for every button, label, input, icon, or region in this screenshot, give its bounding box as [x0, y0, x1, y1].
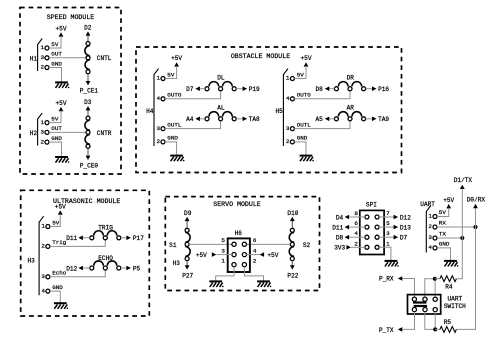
svg-text:P_TX: P_TX: [379, 327, 394, 334]
wire SPI pin1 to ground: [379, 247, 391, 260]
svg-text:SERVO MODULE: SERVO MODULE: [213, 201, 261, 208]
node P_TX: [379, 327, 402, 334]
svg-text:6: 6: [253, 237, 257, 244]
svg-text:D2: D2: [84, 25, 92, 32]
svg-text:D11: D11: [332, 225, 343, 232]
svg-text:S1: S1: [169, 242, 177, 249]
wire pin3 to node: [49, 57, 86, 59]
svg-text:P16: P16: [378, 86, 389, 93]
power +5V: [49, 25, 67, 48]
power +5V: [294, 55, 311, 78]
svg-text:H1: H1: [30, 56, 38, 63]
jumper bridge AR: [334, 105, 365, 121]
svg-text:H6: H6: [235, 230, 243, 237]
node P22: [287, 261, 298, 280]
svg-text:4: 4: [41, 287, 45, 294]
svg-text:DL: DL: [217, 75, 225, 82]
junction: [474, 225, 478, 229]
node D7: [186, 86, 205, 93]
ground: [257, 281, 271, 287]
resistor R4: [435, 276, 457, 291]
svg-text:4: 4: [428, 244, 432, 251]
power +5V: [49, 100, 67, 123]
svg-text:AL: AL: [217, 105, 225, 112]
svg-text:5V: 5V: [51, 41, 59, 48]
node D4: [336, 214, 365, 221]
ground: [170, 156, 184, 162]
svg-text:P19: P19: [249, 86, 260, 93]
svg-text:R5: R5: [444, 319, 452, 326]
svg-text:OUTO: OUTO: [297, 92, 312, 99]
svg-text:+5V: +5V: [443, 197, 454, 204]
svg-text:P5: P5: [133, 265, 141, 272]
svg-text:2: 2: [156, 138, 160, 145]
node A5: [315, 116, 334, 123]
svg-text:DR: DR: [347, 75, 355, 82]
ground: [55, 157, 69, 163]
node D12: [66, 265, 90, 272]
svg-text:D13: D13: [400, 225, 411, 232]
svg-text:UART: UART: [448, 296, 463, 303]
ground: [444, 261, 458, 267]
node D13: [379, 225, 411, 232]
svg-text:D7: D7: [400, 235, 408, 242]
wire switch top-middle to junction: [425, 279, 435, 297]
module box ULTRASONIC MODULE: [21, 190, 150, 316]
svg-text:1: 1: [40, 119, 44, 126]
svg-text:+5V: +5V: [55, 203, 66, 210]
net D1/TX: [454, 177, 473, 189]
ground: [385, 261, 399, 267]
svg-text:3: 3: [286, 125, 290, 132]
node D8: [315, 86, 334, 93]
svg-text:3: 3: [40, 129, 44, 136]
svg-text:Trig: Trig: [52, 239, 67, 246]
ground: [300, 156, 314, 162]
wire TX to D1/TX: [437, 237, 462, 239]
svg-text:2: 2: [41, 243, 45, 250]
ground: [55, 82, 69, 88]
connector H1: [30, 39, 63, 72]
node D11: [66, 235, 90, 242]
power +5V into pin 3: [196, 252, 232, 259]
svg-text:6: 6: [354, 220, 358, 227]
node D12: [379, 214, 411, 221]
node P_RX: [379, 276, 402, 283]
junction: [433, 277, 437, 281]
svg-text:P_CE0: P_CE0: [80, 162, 99, 169]
svg-text:GND: GND: [439, 241, 450, 248]
svg-text:5V: 5V: [297, 71, 305, 78]
svg-text:OUT: OUT: [51, 51, 62, 58]
power +5V into pin 4: [247, 252, 279, 259]
jumper bridge TRIG: [90, 225, 121, 240]
svg-text:RX: RX: [439, 220, 447, 227]
svg-text:3: 3: [41, 273, 45, 280]
svg-text:P_CE1: P_CE1: [80, 88, 99, 95]
svg-text:GND: GND: [51, 135, 62, 142]
node P_CE1: [80, 74, 99, 95]
svg-text:SPEED MODULE: SPEED MODULE: [47, 14, 95, 21]
svg-text:3V3: 3V3: [334, 245, 345, 252]
junction: [433, 327, 437, 331]
wire H6 pin6 to S2: [247, 243, 291, 245]
node P5: [121, 265, 141, 272]
svg-text:+5V: +5V: [301, 55, 312, 62]
svg-text:7: 7: [386, 210, 390, 217]
svg-text:SWITCH: SWITCH: [444, 303, 466, 310]
wire RX to D0/RX: [437, 226, 476, 228]
module box OBSTACLE MODULE: [136, 47, 402, 173]
junction: [460, 236, 464, 240]
svg-text:H3: H3: [27, 258, 35, 265]
jumper chain CNTR: [85, 116, 112, 148]
jumper bridge AL: [205, 105, 236, 121]
svg-text:3: 3: [40, 54, 44, 61]
svg-text:UART: UART: [420, 201, 435, 208]
svg-text:5V: 5V: [439, 209, 447, 216]
node D9: [184, 210, 192, 228]
wire ta8: [165, 121, 221, 129]
svg-text:CNTR: CNTR: [97, 130, 112, 137]
svg-text:5: 5: [386, 220, 390, 227]
wire echo: [50, 270, 105, 277]
svg-text:1: 1: [41, 223, 45, 230]
svg-text:3: 3: [386, 230, 390, 237]
resistor R5: [435, 319, 456, 332]
power +5V: [50, 203, 66, 226]
ground: [209, 281, 223, 287]
svg-text:4: 4: [286, 95, 290, 102]
svg-text:CNTL: CNTL: [97, 55, 112, 62]
wire pin2 to ground: [49, 68, 62, 82]
svg-text:+5V: +5V: [196, 252, 207, 259]
connector H5: [275, 69, 311, 146]
module box SPEED MODULE: [20, 8, 121, 175]
svg-text:P_RX: P_RX: [379, 276, 394, 283]
svg-text:GND: GND: [167, 135, 178, 142]
svg-text:D0/RX: D0/RX: [467, 196, 486, 203]
node P16: [366, 86, 390, 93]
svg-text:D8: D8: [336, 235, 344, 242]
wire pin3 to node: [49, 131, 86, 133]
wire P_TX to switch: [402, 312, 414, 330]
svg-text:D7: D7: [186, 86, 194, 93]
wire switch bottom-right to junction: [434, 312, 436, 330]
wire H6 pin2 to ground: [244, 267, 263, 281]
wire pin2 to ground: [165, 142, 177, 155]
wire H6 pin1 to ground: [216, 267, 234, 281]
wire pin2 to ground: [49, 142, 62, 156]
svg-text:1: 1: [221, 258, 225, 265]
svg-text:H4: H4: [146, 108, 154, 115]
svg-text:GND: GND: [52, 284, 63, 291]
svg-text:SPI: SPI: [366, 202, 377, 209]
svg-text:H3: H3: [173, 260, 181, 267]
connector UART: [420, 201, 450, 253]
svg-text:+5V: +5V: [56, 25, 67, 32]
svg-text:2: 2: [253, 258, 257, 265]
svg-text:R4: R4: [445, 284, 453, 291]
svg-text:Echo: Echo: [52, 270, 67, 277]
jumper chain S1: [169, 228, 190, 267]
svg-text:1: 1: [428, 213, 432, 220]
wire trig: [50, 240, 105, 247]
svg-text:5V: 5V: [52, 219, 60, 226]
jumper bridge DR: [334, 75, 365, 91]
svg-text:TA8: TA8: [249, 116, 260, 123]
wire p16: [294, 91, 350, 99]
svg-text:OUTL: OUTL: [297, 121, 312, 128]
node P_CE0: [80, 148, 99, 169]
connector H3: [27, 216, 66, 295]
svg-text:1: 1: [156, 75, 160, 82]
svg-text:OUTO: OUTO: [167, 92, 182, 99]
svg-text:D4: D4: [336, 214, 344, 221]
jumper bridge DL: [205, 75, 236, 91]
svg-text:4: 4: [354, 230, 358, 237]
svg-text:+5V: +5V: [267, 252, 278, 259]
wire pin4 to ground: [50, 291, 60, 302]
svg-text:OUT: OUT: [51, 125, 62, 132]
svg-text:D12: D12: [66, 265, 77, 272]
svg-text:A5: A5: [315, 116, 323, 123]
connector H2: [30, 113, 63, 146]
svg-text:P27: P27: [182, 273, 193, 280]
svg-text:H5: H5: [275, 108, 283, 115]
connector SPI: [354, 202, 390, 255]
ground: [54, 303, 68, 309]
power +5V: [437, 197, 455, 217]
svg-text:D9: D9: [184, 210, 192, 217]
svg-text:5: 5: [221, 237, 225, 244]
svg-text:4: 4: [253, 248, 257, 255]
svg-text:3: 3: [221, 248, 225, 255]
node D7: [379, 235, 407, 242]
svg-text:D12: D12: [400, 214, 411, 221]
wire switch top-right to junction: [434, 279, 436, 297]
jumper bridge ECHO: [90, 255, 121, 270]
node TA9: [366, 116, 390, 123]
svg-text:D3: D3: [84, 99, 92, 106]
connector H4: [146, 69, 182, 146]
svg-text:OUTL: OUTL: [167, 121, 182, 128]
svg-text:TA9: TA9: [378, 116, 389, 123]
svg-text:5V: 5V: [51, 115, 59, 122]
svg-text:+5V: +5V: [171, 55, 182, 62]
svg-text:GND: GND: [51, 60, 62, 67]
wire pin4 to ground: [437, 248, 451, 260]
svg-text:TRIG: TRIG: [98, 225, 113, 232]
wire P_RX to switch: [402, 279, 414, 297]
node P17: [121, 235, 144, 242]
node D8: [336, 235, 365, 242]
svg-text:D8: D8: [315, 86, 323, 93]
jumper chain CNTL: [85, 42, 112, 74]
jumper chain S2: [289, 228, 310, 260]
svg-text:2: 2: [40, 64, 44, 71]
wire switch bottom-middle to junction: [425, 312, 435, 330]
node D3: [84, 99, 92, 116]
connector UART SWITCH: [408, 295, 467, 314]
node P27: [182, 261, 193, 280]
svg-text:2: 2: [286, 138, 290, 145]
wire pin2 to ground: [294, 142, 306, 155]
svg-text:3: 3: [428, 234, 432, 241]
wire S1 to H6 pin5: [189, 243, 232, 245]
svg-text:4: 4: [156, 95, 160, 102]
node D10: [287, 210, 298, 228]
svg-text:ECHO: ECHO: [98, 255, 113, 262]
node D2: [84, 25, 92, 42]
svg-text:1: 1: [40, 44, 44, 51]
wire ta9: [294, 121, 350, 129]
node D11: [332, 225, 365, 232]
module box SERVO MODULE: [165, 197, 319, 291]
net D0/RX: [467, 196, 486, 208]
svg-text:D11: D11: [66, 235, 77, 242]
svg-text:+5V: +5V: [56, 100, 67, 107]
svg-text:OBSTACLE MODULE: OBSTACLE MODULE: [231, 53, 290, 60]
svg-text:2: 2: [354, 240, 358, 247]
wire p19: [165, 91, 221, 99]
svg-text:H2: H2: [30, 130, 38, 137]
svg-text:P17: P17: [133, 235, 144, 242]
node TA8: [236, 116, 260, 123]
node A4: [186, 116, 205, 123]
svg-text:8: 8: [354, 210, 358, 217]
svg-text:AR: AR: [347, 105, 355, 112]
svg-text:1: 1: [386, 240, 390, 247]
svg-text:TX: TX: [439, 231, 447, 238]
svg-text:A4: A4: [186, 116, 194, 123]
svg-text:2: 2: [428, 223, 432, 230]
power +5V: [165, 55, 182, 78]
svg-text:GND: GND: [297, 135, 308, 142]
node 3V3: [334, 245, 365, 252]
wire D1/TX vertical: [457, 189, 463, 279]
connector H6: [221, 230, 257, 272]
wire D0/RX vertical: [457, 208, 476, 329]
svg-text:D10: D10: [287, 210, 298, 217]
svg-text:D1/TX: D1/TX: [454, 177, 473, 184]
svg-text:3: 3: [156, 125, 160, 132]
svg-text:1: 1: [286, 75, 290, 82]
node P19: [236, 86, 260, 93]
svg-text:5V: 5V: [167, 71, 175, 78]
svg-text:2: 2: [40, 138, 44, 145]
svg-text:P22: P22: [287, 273, 298, 280]
svg-text:S2: S2: [303, 242, 311, 249]
